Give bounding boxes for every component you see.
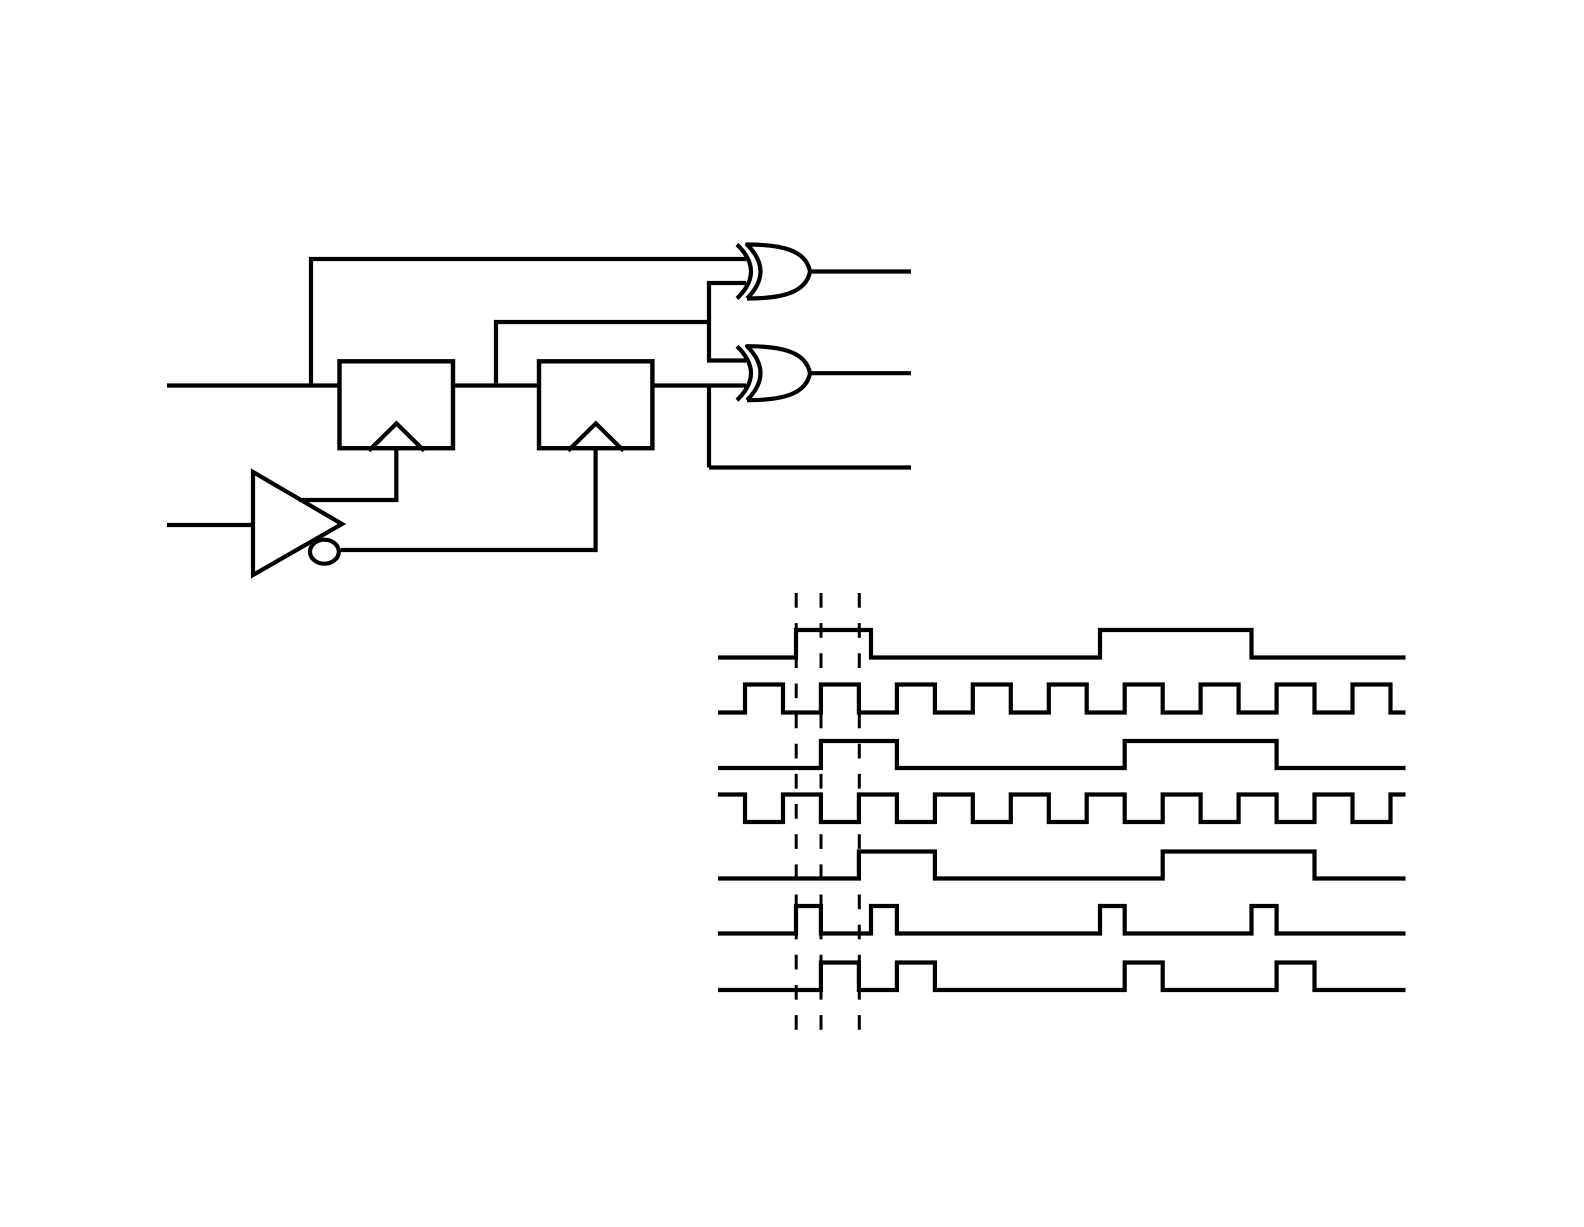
flip-flop FF1 box <box>340 361 454 448</box>
wire: clock input <box>167 523 255 527</box>
waveform row 1: serial input b <box>718 630 1406 658</box>
wire: bottom output <box>709 465 911 469</box>
wire: FF2 Q output to XOR2 lower input <box>652 383 746 387</box>
waveform row 7: XOR2 output <box>718 963 1406 991</box>
wire: inverted clock to FF2 clock pin <box>341 446 596 550</box>
wire: XOR1 output <box>808 269 911 273</box>
wire: vertical x=709 joining XOR1 lower and XOR2 upper inputs <box>707 283 711 361</box>
waveform row 3: flip-flop 1 output <box>718 741 1406 768</box>
inverter U1 bubble <box>310 540 339 564</box>
xor gate XOR2 <box>737 346 751 400</box>
wire: Q1 horizontal to x=709 <box>494 320 709 324</box>
wire: clock tap to FF1 clock pin <box>299 446 396 500</box>
inverter U1 triangle <box>253 472 342 575</box>
waveform row 4: inverted clock <box>718 795 1406 823</box>
flip-flop FF2 clock triangle <box>568 423 623 450</box>
waveform row 2: clock <box>718 685 1406 713</box>
wire: input tap vertical riser at x=311 <box>309 259 313 388</box>
flip-flop FF1 clock triangle <box>369 423 424 450</box>
flip-flop FF2 box <box>539 361 652 448</box>
timing cursor dashed line 1 <box>795 593 798 1030</box>
waveform row 6: XOR1 output <box>718 906 1406 934</box>
wire: serial data input <box>167 383 341 387</box>
wire: FF1 Q to FF2 D <box>453 383 539 387</box>
wire: top horizontal to XOR1 upper input <box>309 257 746 261</box>
wire: vertical x=709 down to bottom output <box>707 386 711 468</box>
wire: XOR1 lower input stub <box>707 281 746 285</box>
wire: XOR2 output <box>808 371 911 375</box>
wire: XOR2 upper input stub <box>707 358 746 362</box>
wire: Q1 tap vertical riser at x=496 <box>494 322 498 388</box>
timing cursor dashed line 3 <box>858 593 861 1030</box>
xor gate XOR1 <box>737 245 751 299</box>
timing cursor dashed line 2 <box>820 593 823 1030</box>
waveform row 5: flip-flop 2 output <box>718 852 1406 879</box>
